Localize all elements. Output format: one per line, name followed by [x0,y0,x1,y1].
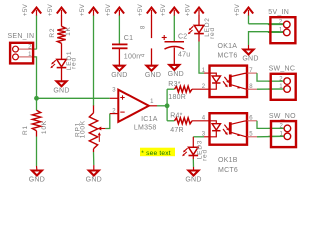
svg-text:SEN_IN: SEN_IN [8,33,35,40]
svg-text:GND: GND [86,177,102,184]
svg-text:1: 1 [279,28,283,34]
svg-text:red: red [70,57,77,69]
svg-text:R1: R1 [22,125,29,135]
svg-text:+5V: +5V [79,3,86,16]
connector SW_NO [269,113,297,147]
svg-text:1: 1 [150,99,154,105]
wire junction B down to R4 [166,106,168,121]
wire op-amp pin 2 stub [110,113,118,115]
svg-text:1K: 1K [65,26,72,36]
node junction A [34,96,39,101]
note: * see text [140,148,175,157]
+5V supply arrow (RP1) [79,3,98,106]
svg-text:SW_NC: SW_NC [269,66,296,73]
capacitor C1 [112,44,128,65]
svg-text:+5V: +5V [234,3,241,16]
svg-text:GND: GND [53,88,69,95]
svg-text:1: 1 [202,68,206,74]
svg-text:GND: GND [185,177,201,184]
resistor R4 [175,118,193,124]
ground below 5V_IN [242,50,258,63]
svg-text:+5V: +5V [22,3,29,16]
optocoupler OK1A [202,66,257,98]
svg-text:R4*: R4* [170,113,182,120]
svg-text:MCT6: MCT6 [218,167,238,174]
svg-text:+5V: +5V [105,3,112,16]
RP1 wiper arrow [98,127,106,142]
svg-text:GND: GND [111,72,127,79]
svg-text:2: 2 [280,124,284,130]
svg-text:10K: 10K [41,120,48,134]
wire R1 to GND [36,131,38,137]
+5V supply arrow (LED2) [185,3,204,25]
svg-text:R3*: R3* [168,81,180,88]
svg-text:2: 2 [279,20,283,26]
+5V supply arrow (C2) [160,3,179,41]
wire RP1 wiper to op-amp pin 2 [105,114,109,129]
wire OK1B pin 3 to LED3 [204,136,210,138]
wire LED2 to OK1A pin 1 [198,34,200,42]
svg-text:100K: 100K [79,120,86,138]
ground below LED1 [53,81,69,94]
wire junction B up to R3 [166,89,168,106]
ground below C1 [111,66,127,79]
wire OK1A pin 7 to SW_NC pin 2 [257,73,284,81]
resistor R1 [32,110,40,131]
svg-text:100n: 100n [124,53,141,60]
svg-text:4: 4 [140,53,146,57]
resistor R3 [175,86,193,92]
connector SEN_IN [8,33,35,64]
+5V supply arrow (5V_IN) [234,3,253,23]
ground below R1 [29,171,45,184]
connector 5V_IN [268,9,296,43]
svg-text:2: 2 [279,76,283,82]
wire R3 to OK1A pin 2 [192,88,210,90]
svg-text:red: red [209,27,216,39]
wire junction A to op-amp pin 3 [37,97,110,99]
svg-text:GND: GND [29,177,45,184]
ground IC1 pin 4 [145,66,161,79]
svg-text:red: red [202,149,209,161]
wire SEN_IN pin1 to junction A [19,56,34,58]
wire LED3 to GND [192,156,194,160]
+5V supply arrow (R2) [47,3,66,26]
svg-text:C1: C1 [124,35,133,42]
+5V supply arrow (IC1 pin 8) [137,3,156,38]
svg-text:2: 2 [112,108,116,114]
LED LED3 [182,147,198,156]
svg-text:GND: GND [168,71,184,78]
potentiometer RP1 [89,113,97,149]
wire OK1B pin 6 to SW_NO pin 2 [257,121,284,129]
svg-text:5V_IN: 5V_IN [268,9,289,16]
svg-text:+5V: +5V [47,3,54,16]
svg-text:2: 2 [28,44,32,50]
svg-text:8: 8 [140,25,146,29]
LED LED2 [188,25,204,34]
svg-text:1: 1 [279,84,283,90]
wire op-amp output to junction B [149,105,157,107]
svg-text:+5V: +5V [185,3,192,16]
ground below RP1 [86,171,102,184]
wire +5V to 5V_IN pin 2 [249,23,284,25]
svg-text:R2: R2 [49,28,56,38]
wire RP1 to GND [93,149,95,152]
svg-text:GND: GND [242,56,258,63]
svg-text:180R: 180R [168,94,186,101]
svg-text:C2: C2 [178,34,187,41]
wire LED1 to GND [61,68,63,82]
svg-text:GND: GND [145,72,161,79]
wire SEN_IN pin2 stub [19,48,34,50]
svg-text:* see text: * see text [141,150,171,157]
svg-text:MCT6: MCT6 [218,53,238,60]
wire junction A to R1 [36,98,38,110]
svg-text:3: 3 [112,88,116,94]
IC1 pin 4 stub [151,48,153,65]
wire OK1A pin 8 to SW_NC pin 1 [257,88,284,90]
svg-text:4: 4 [202,116,206,122]
optocoupler OK1B [202,113,257,145]
svg-text:1: 1 [28,52,32,58]
capacitor C2 (polarized) [162,35,184,65]
ground below C2 [168,65,184,78]
svg-text:OK1B: OK1B [218,157,238,164]
node junction B [165,103,170,108]
LED LED1 [50,59,66,68]
resistor R2 [57,26,65,43]
wire 5V_IN pin 1 to GND [249,32,284,45]
connector SW_NC [268,66,296,100]
wire +5V to RP1 top (crosses node wire) [93,106,95,113]
svg-text:1: 1 [280,132,284,138]
wire R2 to LED1 [61,43,63,59]
svg-text:47R: 47R [170,127,184,134]
wire R4 to OK1B pin 4 [192,120,210,122]
svg-text:OK1A: OK1A [218,43,238,50]
svg-text:47u: 47u [178,52,190,59]
+5V supply arrow (C1) [105,3,124,44]
svg-text:+5V: +5V [137,3,144,16]
wire OK1B pin 5 to SW_NO pin 1 [257,135,284,138]
ground below LED3 [185,171,201,184]
+5V supply arrow (SEN_IN pull-up) [22,3,41,49]
svg-text:2: 2 [202,84,206,90]
wire op-amp pin 3 stub [110,97,118,99]
op-amp IC1A [118,90,149,122]
svg-text:IC1A: IC1A [141,116,158,123]
svg-text:+5V: +5V [160,3,167,16]
svg-text:LM358: LM358 [134,125,157,132]
svg-text:SW_NO: SW_NO [269,113,296,120]
